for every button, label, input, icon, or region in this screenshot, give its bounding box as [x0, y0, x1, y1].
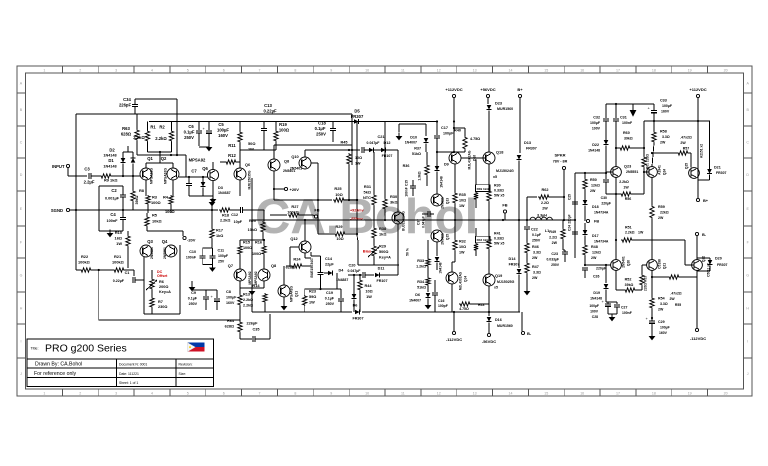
svg-text:C: C [746, 140, 749, 144]
svg-text:R29: R29 [379, 245, 386, 249]
transistor Q15 driver [431, 230, 443, 242]
transistor Q11 [278, 285, 290, 297]
svg-text:R64: R64 [227, 319, 235, 323]
diode FR107 mid [374, 149, 381, 151]
transistor Q10 [299, 157, 311, 169]
diode D6 FR307 on rail [355, 310, 360, 315]
svg-text:SPKR: SPKR [554, 153, 565, 158]
ground below C29 [651, 333, 653, 337]
svg-text:39kΩ: 39kΩ [625, 283, 634, 287]
capacitor C6 [198, 122, 200, 131]
diode D2 [122, 152, 124, 158]
svg-text:FB: FB [502, 203, 507, 208]
capacitor C17 [436, 122, 438, 136]
svg-text:Q15: Q15 [446, 234, 450, 240]
svg-text:D16: D16 [495, 318, 502, 322]
svg-text:C13: C13 [264, 103, 272, 108]
capacitor C37 [427, 211, 429, 217]
resistor R19 [275, 122, 277, 131]
trimmer R6 DC Offset [150, 278, 154, 290]
svg-text:C5: C5 [218, 122, 224, 127]
wire -20V feed [147, 230, 183, 232]
svg-text:R31: R31 [364, 184, 372, 189]
svg-text:-112VDC: -112VDC [446, 337, 462, 342]
svg-text:D6: D6 [415, 293, 420, 297]
svg-text:C23: C23 [551, 252, 558, 256]
svg-text:220Ω: 220Ω [644, 283, 648, 291]
svg-text:100kΩ: 100kΩ [78, 260, 90, 265]
svg-text:Q6: Q6 [245, 163, 250, 167]
svg-text:628Ω: 628Ω [121, 132, 132, 137]
svg-text:0.1µF: 0.1µF [184, 130, 195, 135]
terminal -112VDC right [696, 277, 698, 328]
svg-text:R27: R27 [291, 204, 298, 209]
svg-text:18: 18 [652, 392, 656, 396]
svg-text:100Ω: 100Ω [279, 128, 290, 133]
svg-text:10Ω: 10Ω [355, 156, 362, 160]
svg-text:4: 4 [151, 69, 153, 73]
resistor R45 [347, 153, 351, 165]
svg-text:100pF: 100pF [438, 304, 448, 308]
transistor Q8 vas [268, 159, 280, 171]
svg-text:A1941: A1941 [658, 165, 662, 175]
svg-text:R15: R15 [243, 241, 250, 245]
svg-text:R58: R58 [660, 130, 667, 134]
svg-text:7: 7 [259, 69, 261, 73]
svg-text:100kΩ: 100kΩ [287, 211, 299, 215]
svg-text:5: 5 [187, 69, 189, 73]
svg-text:1N4148: 1N4148 [103, 154, 116, 158]
svg-text:R5: R5 [152, 213, 158, 218]
svg-text:14: 14 [509, 69, 513, 73]
resistor R44 [359, 275, 361, 279]
svg-text:J: J [20, 372, 22, 376]
svg-text:C12: C12 [231, 213, 238, 217]
svg-text:2W: 2W [680, 141, 686, 145]
svg-text:1W: 1W [623, 186, 629, 190]
svg-text:100nF: 100nF [622, 121, 633, 125]
diode D11 FR107 [375, 273, 380, 278]
svg-text:59Ω: 59Ω [309, 295, 316, 299]
svg-text:D17: D17 [592, 234, 599, 238]
resistor R55 [668, 275, 680, 279]
svg-text:0.033µF: 0.033µF [546, 258, 559, 262]
svg-text:C24: C24 [568, 225, 572, 231]
svg-text:C29: C29 [658, 320, 665, 324]
svg-text:1W: 1W [116, 241, 122, 246]
svg-text:FR307: FR307 [509, 263, 520, 267]
svg-text:1.3kΩ: 1.3kΩ [418, 171, 422, 181]
svg-text:R32: R32 [459, 240, 466, 244]
svg-text:10Ω: 10Ω [335, 192, 342, 197]
svg-text:1N4734A: 1N4734A [594, 240, 609, 244]
svg-text:Key=A: Key=A [159, 290, 171, 294]
resistor R62 bypass [527, 196, 537, 198]
svg-text:51kΩ: 51kΩ [412, 152, 421, 156]
svg-text:1W: 1W [459, 251, 465, 255]
svg-text:12: 12 [437, 392, 441, 396]
svg-text:R55: R55 [675, 303, 681, 307]
svg-text:D10: D10 [410, 136, 417, 140]
svg-text:8: 8 [294, 392, 296, 396]
wire lower bus 289 [305, 288, 337, 290]
svg-text:2.2kΩ: 2.2kΩ [220, 219, 230, 223]
svg-text:2: 2 [79, 69, 81, 73]
svg-text:2: 2 [79, 392, 81, 396]
capacitor C34 [132, 104, 138, 106]
ground right top [632, 104, 634, 110]
transistor Q2 [167, 168, 179, 180]
svg-text:SGND: SGND [51, 208, 63, 213]
svg-text:9: 9 [330, 69, 332, 73]
svg-text:Q21: Q21 [663, 263, 667, 269]
svg-text:R22: R22 [81, 254, 89, 259]
svg-text:INPUT: INPUT [52, 164, 65, 169]
svg-text:2.2µF: 2.2µF [84, 180, 95, 185]
resistor R3 [145, 192, 147, 195]
resistor R8 [132, 176, 134, 190]
capacitor C13 [263, 122, 265, 129]
terminal SGND [66, 208, 69, 211]
svg-text:0.1µF: 0.1µF [188, 297, 198, 301]
svg-text:2N5601: 2N5601 [441, 233, 445, 245]
svg-text:R30: R30 [390, 194, 397, 199]
wire D10 loop [399, 123, 426, 125]
svg-text:2N5401: 2N5401 [622, 256, 626, 268]
svg-text:19: 19 [688, 392, 692, 396]
wire stage2 vertical [251, 178, 253, 220]
svg-text:B+: B+ [703, 198, 709, 203]
resistor R13b [263, 293, 267, 303]
svg-text:Q8: Q8 [284, 159, 290, 164]
svg-text:16: 16 [580, 392, 584, 396]
svg-text:Q20: Q20 [627, 260, 631, 266]
wire bottom rail y312 [252, 311, 352, 313]
capacitor C16 [434, 280, 436, 292]
svg-text:R25: R25 [334, 186, 342, 191]
svg-text:R50: R50 [590, 178, 597, 182]
diode D5 FR307 [354, 119, 359, 124]
ground R17 top [211, 199, 213, 203]
svg-text:1N4148: 1N4148 [440, 176, 444, 188]
svg-text:D11: D11 [378, 267, 385, 271]
svg-text:FR107: FR107 [376, 279, 387, 283]
svg-text:Q1: Q1 [147, 156, 153, 161]
wire bottom loop right [239, 314, 241, 320]
diode D22 [604, 140, 609, 145]
svg-text:B-: B- [702, 232, 707, 237]
svg-text:FB: FB [594, 220, 599, 224]
svg-text:10kΩ: 10kΩ [152, 219, 162, 224]
svg-text:D9: D9 [444, 163, 449, 167]
svg-text:220pF: 220pF [568, 214, 572, 223]
svg-text:R14: R14 [252, 283, 260, 288]
capacitor C31 [615, 104, 617, 118]
svg-text:2.2kΩ: 2.2kΩ [619, 180, 629, 184]
svg-text:22kΩ: 22kΩ [660, 211, 669, 215]
svg-text:1N4687: 1N4687 [218, 191, 231, 195]
resistor R11 [239, 122, 241, 132]
diode D20 [697, 257, 710, 259]
svg-text:100Ω: 100Ω [252, 252, 261, 256]
transistor Q25 [689, 168, 700, 179]
svg-text:R30: R30 [494, 184, 501, 188]
svg-text:D3: D3 [218, 186, 223, 190]
svg-text:C21: C21 [378, 135, 385, 139]
svg-text:C27: C27 [621, 306, 627, 310]
svg-text:C22: C22 [531, 228, 538, 232]
svg-text:R29: R29 [336, 225, 343, 229]
svg-text:R54: R54 [658, 297, 665, 301]
svg-text:100pF: 100pF [443, 132, 454, 136]
diode D8 [426, 293, 431, 298]
svg-text:2.2kΩ: 2.2kΩ [133, 135, 145, 140]
svg-text:C19: C19 [326, 291, 333, 295]
svg-text:R19: R19 [279, 122, 287, 127]
svg-text:160V: 160V [661, 110, 670, 114]
svg-text:Q23: Q23 [624, 165, 631, 169]
resistor R59 right [651, 177, 653, 205]
wire +112 right drop [697, 98, 699, 198]
svg-text:200Ω: 200Ω [159, 285, 168, 289]
svg-text:R24: R24 [293, 257, 301, 262]
svg-text:100Ω: 100Ω [151, 200, 161, 205]
resistor R34 [426, 277, 430, 286]
svg-text:1W: 1W [309, 301, 315, 305]
svg-text:100µF: 100µF [590, 121, 601, 125]
svg-text:FR307: FR307 [526, 147, 537, 151]
svg-text:R47: R47 [532, 265, 539, 269]
capacitor C35 [240, 338, 252, 340]
svg-text:R10: R10 [115, 230, 122, 235]
capacitor C25 [572, 201, 578, 203]
wire right input column [574, 173, 576, 258]
svg-text:0.001µF: 0.001µF [105, 197, 120, 201]
capacitor C2 [122, 186, 124, 195]
resistor R26 bank [488, 164, 490, 190]
resistor R32 [454, 220, 456, 239]
svg-text:10Ω: 10Ω [459, 199, 466, 203]
svg-text:100V: 100V [592, 127, 601, 131]
svg-text:NTC: NTC [363, 195, 371, 200]
svg-text:MPSA92G: MPSA92G [150, 168, 154, 185]
terminal B- mid [521, 312, 523, 331]
ground under D8 [427, 302, 429, 306]
resistor R51 row [621, 238, 633, 242]
svg-text:C7: C7 [191, 169, 197, 174]
svg-text:3kΩ: 3kΩ [390, 200, 397, 205]
transistor Q16 [449, 152, 461, 164]
svg-text:R41: R41 [494, 232, 501, 236]
svg-text:C9: C9 [191, 291, 196, 295]
svg-text:D2: D2 [109, 148, 115, 153]
svg-text:R53: R53 [644, 276, 648, 282]
resistor R48 [583, 244, 587, 256]
resistor R33 [427, 240, 429, 258]
diode D3 [202, 177, 204, 182]
ground below C4 [109, 230, 111, 234]
svg-text:16Ω: 16Ω [115, 236, 122, 241]
svg-text:2N5551: 2N5551 [163, 247, 167, 259]
svg-text:2W: 2W [590, 189, 596, 193]
ground under Q6 [212, 196, 214, 200]
svg-text:250V: 250V [184, 135, 194, 140]
svg-text:10: 10 [365, 392, 369, 396]
svg-text:100µF: 100µF [662, 104, 673, 108]
transistor Q23 [611, 167, 622, 178]
svg-text:Document N: 0001: Document N: 0001 [119, 363, 147, 367]
resistor R58 [653, 121, 655, 131]
capacitor C22 zobel [526, 220, 528, 226]
title block border [27, 339, 213, 386]
transistor Q18 [483, 152, 495, 164]
svg-text:2.2Ω: 2.2Ω [541, 201, 549, 205]
ground below C5 [208, 144, 210, 148]
svg-text:R23: R23 [309, 290, 316, 294]
transistor Q17 bias servo [392, 212, 404, 224]
svg-text:C33: C33 [660, 99, 667, 103]
wire bus y150 [240, 149, 276, 151]
svg-text:250V: 250V [326, 302, 335, 306]
svg-text:160V: 160V [226, 301, 235, 305]
svg-text:2W: 2W [658, 308, 664, 312]
svg-text:H: H [20, 306, 23, 310]
resistor R54 [651, 270, 653, 297]
diode D1 [132, 152, 134, 158]
resistor R13 [239, 288, 241, 294]
svg-text:Q18: Q18 [496, 150, 504, 155]
svg-text:Q6: Q6 [202, 166, 208, 171]
diode D12 [369, 148, 374, 153]
transistor Q12 [299, 241, 311, 253]
transistor Q5 [234, 168, 246, 180]
resistor R36 [426, 152, 428, 164]
svg-text:G: G [746, 273, 749, 277]
svg-text:0.33Ω: 0.33Ω [494, 237, 504, 241]
svg-text:Q14: Q14 [464, 276, 468, 282]
svg-text:50Ω: 50Ω [248, 141, 255, 146]
svg-text:D21: D21 [714, 166, 721, 170]
diode D7 vertical [353, 275, 355, 294]
ground C9 [191, 284, 193, 288]
wire Q11 ground [283, 297, 285, 303]
svg-text:C15: C15 [405, 180, 409, 186]
svg-text:R6: R6 [159, 280, 164, 284]
resistor R64 [239, 314, 241, 321]
svg-text:Q25: Q25 [685, 163, 689, 169]
svg-text:1N4148: 1N4148 [103, 165, 116, 169]
terminal B+ right [696, 198, 699, 201]
svg-text:1W: 1W [355, 162, 361, 166]
svg-text:Drawn By: CA.Bohol: Drawn By: CA.Bohol [35, 362, 82, 368]
svg-text:x5: x5 [493, 175, 497, 179]
resistor R20 [263, 210, 265, 221]
resistor R35 [454, 183, 456, 192]
svg-text:C31: C31 [620, 116, 627, 120]
svg-text:160V: 160V [218, 133, 228, 138]
trimmer R29 Bias [373, 239, 375, 245]
svg-text:250V: 250V [532, 239, 541, 243]
svg-text:Size:: Size: [179, 372, 187, 376]
svg-text:R13: R13 [243, 293, 250, 297]
svg-text:3: 3 [115, 69, 117, 73]
svg-text:FB: FB [314, 208, 319, 213]
terminal -56VDC [487, 333, 490, 336]
resistor R39 1k [475, 160, 477, 192]
svg-text:2W: 2W [658, 216, 664, 220]
capacitor C8 [216, 290, 218, 298]
svg-text:.47x2Ω: .47x2Ω [670, 292, 681, 296]
svg-text:220Ω: 220Ω [646, 154, 650, 162]
terminal +20V [284, 187, 287, 190]
diode D19 [605, 265, 607, 283]
svg-text:MUR1560: MUR1560 [497, 107, 513, 111]
svg-text:MUR1560: MUR1560 [497, 324, 513, 328]
resistor R16 [263, 240, 265, 245]
svg-text:R3: R3 [152, 195, 158, 200]
svg-text:FR307: FR307 [351, 114, 364, 119]
resistor R50 [584, 173, 586, 178]
svg-text:Key=A: Key=A [379, 256, 391, 260]
svg-text:MJ15024G: MJ15024G [496, 169, 514, 173]
svg-text:R18: R18 [222, 214, 229, 218]
wire bias chain [356, 122, 358, 201]
capacitor C4 [122, 210, 124, 217]
svg-text:x5: x5 [494, 286, 498, 290]
svg-text:220µF: 220µF [601, 202, 611, 206]
svg-text:R63: R63 [122, 126, 130, 131]
svg-text:R62: R62 [542, 188, 549, 192]
resistor R15 [239, 240, 241, 245]
wire R1R2 bottom bus [148, 151, 172, 153]
svg-text:2N5551: 2N5551 [626, 170, 638, 174]
resistor R38 [372, 227, 376, 239]
svg-text:R59: R59 [658, 205, 665, 209]
svg-text:12: 12 [437, 69, 441, 73]
svg-text:2W: 2W [542, 207, 548, 211]
capacitor C20 [348, 274, 362, 276]
svg-text:MPSA42G: MPSA42G [290, 286, 294, 303]
svg-text:2N5881: 2N5881 [441, 197, 445, 209]
svg-text:1kΩ: 1kΩ [379, 232, 386, 237]
svg-text:C6: C6 [188, 124, 194, 129]
resistor R27 [270, 214, 287, 216]
terminal -112VDC [453, 312, 455, 331]
svg-text:For reference only: For reference only [34, 371, 77, 377]
transistor Q20 [611, 260, 622, 271]
svg-text:22µF: 22µF [325, 263, 334, 267]
transistor Q8b [258, 269, 270, 281]
resistor R24 [291, 264, 303, 268]
diode D21 [709, 121, 711, 169]
svg-text:226pF: 226pF [119, 103, 132, 108]
svg-text:D6: D6 [353, 304, 358, 308]
resistor R41 bank [488, 220, 490, 238]
svg-text:C30: C30 [601, 196, 607, 200]
svg-text:C: C [20, 140, 23, 144]
svg-text:FR307: FR307 [352, 317, 363, 321]
svg-text:1N4887: 1N4887 [336, 278, 348, 282]
svg-text:D22: D22 [592, 143, 599, 147]
svg-text:2W: 2W [669, 297, 675, 301]
svg-text:250V: 250V [189, 302, 198, 306]
svg-text:226pF: 226pF [247, 322, 259, 326]
resistor R5 [146, 213, 148, 216]
svg-text:0.047µF: 0.047µF [367, 141, 381, 145]
resistor R21 [113, 268, 125, 272]
svg-text:Q19: Q19 [495, 274, 502, 278]
svg-text:MPSA92: MPSA92 [248, 271, 252, 284]
